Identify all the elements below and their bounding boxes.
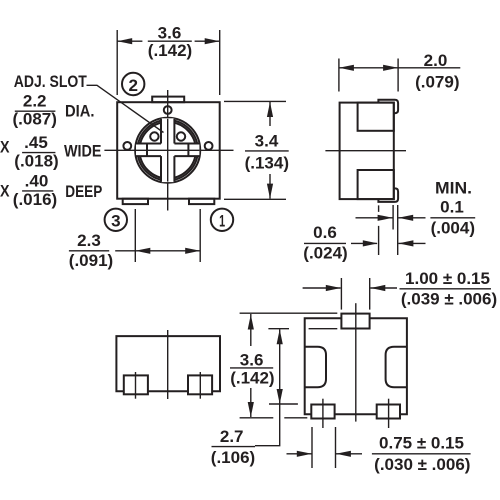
svg-text:(.004): (.004)	[431, 219, 475, 238]
dim 0.6 : arrows	[351, 242, 377, 244]
svg-text:1.00 ± 0.15: 1.00 ± 0.15	[405, 269, 490, 288]
bottom right terminal tab	[377, 405, 400, 419]
svg-text:3.6: 3.6	[240, 351, 264, 370]
svg-text:(.142): (.142)	[148, 41, 192, 60]
svg-text:X: X	[0, 138, 10, 157]
svg-text:2.7: 2.7	[220, 427, 244, 446]
svg-text:(.106): (.106)	[211, 448, 255, 467]
rotor lip top-right	[378, 100, 398, 114]
svg-text:.45: .45	[24, 133, 48, 152]
dim 3.6 left : dimension line + arrows	[250, 314, 252, 346]
svg-text:MIN.: MIN.	[435, 178, 472, 197]
front view left terminal	[124, 375, 148, 394]
slot wide-section divider right	[187, 144, 189, 157]
rotor hole upper-right	[177, 132, 185, 140]
trimmer body outline (top view)	[117, 102, 220, 199]
bottom right terminal centerline	[388, 399, 390, 428]
front view right terminal centerline	[199, 372, 201, 399]
body hole right	[205, 142, 213, 150]
bottom left terminal tab	[311, 405, 334, 419]
terminal 3 bottom-left tab	[123, 199, 148, 204]
dim 0.1 MIN : arrows	[356, 217, 393, 219]
slot horizontal bar edges	[136, 143, 161, 145]
svg-text:(.079): (.079)	[415, 72, 459, 91]
svg-text:0.6: 0.6	[313, 223, 337, 242]
terminal 1 bottom-right tab	[189, 199, 214, 204]
dim 3.6 left : extension lines	[240, 312, 338, 314]
pin number circle 1	[211, 209, 233, 231]
svg-text:3: 3	[111, 212, 121, 231]
bottom view body bottom middle segment	[335, 413, 377, 415]
side view horizontal centerline	[325, 150, 406, 152]
svg-text:X: X	[0, 182, 10, 201]
dim 3.4 right : dimension line + arrows	[269, 102, 271, 126]
rotor hole upper-left	[150, 132, 158, 140]
dim 0.75 : extension lines	[311, 427, 313, 468]
dim 0.75 : arrows	[287, 453, 312, 455]
lip face extension line	[397, 205, 399, 255]
rotor lip bottom-right	[378, 188, 398, 202]
svg-text:(.016): (.016)	[13, 190, 57, 209]
dim 2.7 : dimension line + arrows + leader	[255, 329, 280, 446]
svg-text:0.75 ± 0.15: 0.75 ± 0.15	[379, 434, 464, 453]
svg-text:1: 1	[219, 212, 225, 231]
side view body outline	[340, 103, 394, 200]
svg-text:(.134): (.134)	[245, 154, 289, 173]
top terminal centerline	[355, 303, 357, 421]
slot wide-section divider left	[146, 144, 148, 157]
svg-text:.40: .40	[25, 172, 49, 191]
svg-text:0.1: 0.1	[440, 197, 464, 216]
svg-text:WIDE: WIDE	[64, 142, 102, 161]
dim 3.4 right : extension lines	[224, 100, 286, 102]
svg-text:2.3: 2.3	[77, 231, 101, 250]
dim 2.0 : extension lines	[338, 59, 340, 92]
slot white fill (cross union over rings)	[136, 144, 199, 157]
side view lower terminal	[358, 170, 394, 199]
front view body outline	[116, 336, 220, 391]
svg-text:3.4: 3.4	[255, 131, 279, 150]
bottom view body outline	[305, 318, 407, 414]
svg-text:(.091): (.091)	[69, 251, 113, 270]
front view left terminal centerline	[135, 372, 137, 399]
front view right terminal	[188, 375, 212, 394]
rotor ring 2	[138, 120, 198, 180]
svg-text:DIA.: DIA.	[65, 102, 95, 121]
bottom left terminal centerline	[322, 399, 324, 428]
dim 2.3 bottom : extension lines	[134, 209, 136, 262]
svg-text:2: 2	[129, 76, 139, 95]
pin number circle 2	[122, 73, 144, 95]
side view upper terminal	[358, 103, 394, 131]
svg-text:ADJ. SLOT: ADJ. SLOT	[14, 72, 87, 91]
horizontal centerline (also WIDE pointer)	[104, 149, 233, 151]
svg-text:(.142): (.142)	[230, 368, 274, 387]
svg-text:(.039 ± .006): (.039 ± .006)	[401, 290, 497, 309]
centerline inside slot	[136, 149, 199, 151]
dim 2.3 bottom : dimension line + arrows	[115, 250, 200, 252]
ADJ. SLOT leader line	[87, 85, 164, 132]
svg-text:(.030 ± .006): (.030 ± .006)	[374, 455, 470, 474]
dim 1.00 : extension lines	[340, 278, 342, 310]
svg-text:(.018): (.018)	[14, 152, 58, 171]
svg-text:3.6: 3.6	[158, 24, 182, 43]
dim 3.6 top : extension lines	[116, 30, 118, 95]
rotor ring 3	[140, 122, 196, 178]
front view vertical centerline	[167, 330, 169, 399]
left side cutout	[305, 347, 326, 387]
svg-text:2.2: 2.2	[23, 92, 47, 111]
rotor top hole	[164, 106, 172, 114]
right side cutout	[386, 347, 407, 387]
dim 3.6 top : dimension line + arrows	[117, 40, 142, 42]
terminal 2 top tab	[152, 97, 184, 103]
pin number circle 3	[105, 209, 127, 231]
hidden terminal edge dashed line	[378, 205, 380, 255]
vertical centerline	[167, 90, 169, 211]
dim 2.0 : dimension line + arrows	[339, 67, 398, 69]
bottom view top terminal tab	[341, 314, 369, 329]
dim 1.00 : arrows	[303, 287, 341, 289]
terminal face extension line	[392, 205, 394, 230]
svg-text:(.024): (.024)	[303, 244, 347, 263]
rotor outer ring	[135, 118, 200, 183]
front view body bottom edge middle segment	[148, 390, 188, 392]
svg-text:DEEP: DEEP	[65, 182, 102, 201]
svg-text:(.087): (.087)	[12, 110, 56, 129]
dim 2.7 : extension lines	[268, 328, 289, 330]
slot vertical bar edges	[160, 119, 162, 144]
body hole left	[123, 142, 131, 150]
